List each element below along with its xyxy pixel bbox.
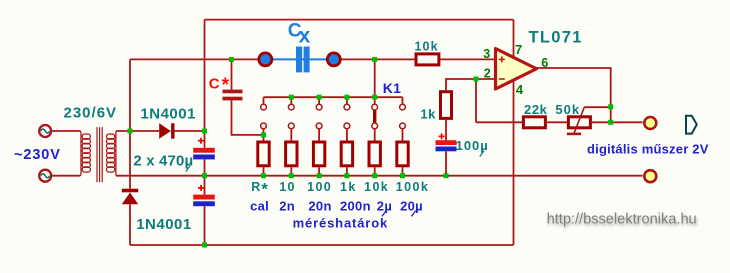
wire: transformer secondary top to D1 anode xyxy=(116,130,159,132)
capacitor C* plates xyxy=(223,90,243,101)
svg-text:2n: 2n xyxy=(279,198,295,213)
svg-text:3: 3 xyxy=(483,47,490,61)
svg-text:200n: 200n xyxy=(340,198,371,213)
wire: pin 4 drop to -V rail xyxy=(513,81,515,245)
label row: range values (blue) xyxy=(250,198,423,213)
svg-text:20n: 20n xyxy=(308,198,331,213)
micro tail of 100u xyxy=(480,151,484,157)
wire: wiper to output node xyxy=(584,106,611,108)
svg-text:*: * xyxy=(261,181,268,199)
switch K1 bottom contact leads to resistors xyxy=(264,129,403,141)
junction: ground rail 1k xyxy=(344,173,349,178)
resistor 10 (range) xyxy=(286,142,297,166)
junction: K1 feed tap on Cx row xyxy=(372,57,377,62)
svg-text:*: * xyxy=(222,75,230,96)
svg-text:10k: 10k xyxy=(364,180,389,194)
svg-text:20µ: 20µ xyxy=(400,198,423,213)
svg-text:1N4001: 1N4001 xyxy=(140,106,196,123)
wire: pin 7 supply drop xyxy=(513,20,515,57)
diode D2 1N4001 (vertical, cathode up) xyxy=(122,189,138,205)
wire: AC source bottom lead xyxy=(52,175,80,177)
AC source G1 sine symbol xyxy=(41,129,50,133)
svg-text:50k: 50k xyxy=(555,102,580,117)
transformer T1 primary winding envelope xyxy=(80,131,81,176)
capacitor C1 bottom lead xyxy=(204,159,206,175)
svg-text:2 x 470µ: 2 x 470µ xyxy=(133,152,193,169)
switch K1 top contacts xyxy=(261,104,406,110)
svg-text:x: x xyxy=(299,25,311,48)
svg-text:digitális műszer 2V: digitális műszer 2V xyxy=(587,141,709,156)
Cx capacitor plates xyxy=(296,47,310,73)
wire: 50k right to output terminal xyxy=(590,121,642,123)
resistor 1k (range) xyxy=(341,142,352,166)
Cx test terminal left xyxy=(259,53,272,66)
svg-text:K1: K1 xyxy=(383,80,402,96)
junction: ground rail 100u cap xyxy=(444,173,449,178)
svg-text:~230V: ~230V xyxy=(14,147,61,163)
capacitor C3 100u plates xyxy=(436,140,457,145)
resistor 10k (range) xyxy=(369,142,380,166)
capacitor C2 bottom lead xyxy=(204,206,206,245)
wire: Cx row from right terminal to 10k xyxy=(339,58,415,60)
transformer T1 primary winding loops xyxy=(82,134,90,172)
svg-text:R: R xyxy=(251,180,261,194)
AC source G2 sine symbol xyxy=(41,174,50,178)
svg-text:22k: 22k xyxy=(524,102,548,117)
capacitor C3 bottom lead xyxy=(445,151,447,175)
transformer T1 secondary winding envelope xyxy=(116,131,117,176)
transformer T1 secondary winding loops xyxy=(107,134,115,172)
junction: K1 bus col2 xyxy=(289,95,294,100)
junction: D1 cathode at +V rail xyxy=(202,129,207,134)
junction: feedback tap on pin 2 wire xyxy=(474,77,479,82)
svg-text:2: 2 xyxy=(484,67,491,81)
wire: op-amp output pin 6 xyxy=(536,68,611,107)
svg-text:4: 4 xyxy=(516,82,524,97)
op-amp U1 plus input marker xyxy=(499,56,505,62)
junction: output row xyxy=(608,120,613,125)
svg-text:100: 100 xyxy=(307,180,332,194)
label row: range resistor values (teal) xyxy=(251,180,429,198)
resistor R1 10k (horizontal) xyxy=(416,54,439,65)
Cx test terminal right xyxy=(327,53,340,66)
capacitor C2 plus sign xyxy=(198,185,204,191)
svg-text:2µ: 2µ xyxy=(377,198,392,213)
potentiometer RV1 trimmer shaft xyxy=(574,107,584,132)
wire: D2 anode down to -V rail xyxy=(129,204,131,245)
junction: K1 bus col5 feed xyxy=(372,95,377,100)
switch K1 feed drop from Cx row xyxy=(374,59,376,97)
capacitor C3 100u plus sign xyxy=(439,133,445,139)
junction: C* to R* top node xyxy=(261,132,266,137)
output terminal lower xyxy=(644,170,656,182)
svg-text:6: 6 xyxy=(541,56,548,70)
wire: D1 cathode to +V rail node xyxy=(175,130,205,132)
wire: AC feed vertical x=130 upper (corner to secondary top node) xyxy=(129,59,131,131)
svg-text:http://bsselektronika.hu: http://bsselektronika.hu xyxy=(547,212,697,228)
junction: ground rail 100 xyxy=(317,173,322,178)
svg-text:méréshatárok: méréshatárok xyxy=(293,215,388,230)
junction: ground rail 10k xyxy=(372,173,377,178)
svg-text:C: C xyxy=(209,75,220,92)
svg-text:1N4001: 1N4001 xyxy=(136,216,192,233)
junction: wiper to output xyxy=(608,104,613,109)
op-amp U1 TL071 triangle xyxy=(496,49,537,90)
svg-text:7: 7 xyxy=(515,42,522,57)
junction: K1 bus col3 xyxy=(317,95,322,100)
wire: Cx blue link between test terminals xyxy=(265,58,334,60)
junction: ground rail 10 xyxy=(289,173,294,178)
wire: secondary top node down to D2 cathode xyxy=(129,131,131,189)
wire: +V drop from top rail to D1 cathode node xyxy=(204,20,206,131)
op-amp U1 minus input marker xyxy=(499,78,505,80)
transformer T1 core xyxy=(97,127,102,182)
svg-text:1k: 1k xyxy=(340,180,357,194)
junction: C* tap on Cx row xyxy=(229,57,234,62)
wire: +V top rail xyxy=(205,19,514,21)
svg-text:10: 10 xyxy=(279,180,296,194)
resistor 100 (range) xyxy=(313,142,324,166)
output terminal upper xyxy=(644,117,656,129)
switch K1 bus xyxy=(264,96,403,98)
wire: 10k to op-amp pin 3 xyxy=(440,58,496,60)
resistor R* (range, vertical) xyxy=(258,142,269,166)
capacitor C2 plates xyxy=(193,195,215,200)
svg-text:10k: 10k xyxy=(415,40,439,54)
svg-text:1k: 1k xyxy=(420,107,436,122)
switch K1 bus drops to top contacts xyxy=(264,97,403,104)
micro tail of 2u xyxy=(382,211,386,217)
diode D1 1N4001 (horizontal) xyxy=(159,123,174,138)
capacitor C2 470u lower electrolytic: top lead xyxy=(204,176,206,195)
connector arrow icon xyxy=(686,116,697,134)
svg-text:TL071: TL071 xyxy=(529,28,583,46)
resistor 100k (range) xyxy=(397,142,408,166)
wire: -V bottom rail xyxy=(130,244,514,246)
AC source G1 upper circle xyxy=(39,125,51,137)
wire: feedback row to 22k xyxy=(476,121,523,123)
wire: Cx measurement row left segment xyxy=(130,58,260,60)
capacitor C1 plates xyxy=(193,148,215,153)
resistor R2 1k bottom lead xyxy=(445,118,447,140)
micro tail of 470u xyxy=(186,166,190,172)
resistor R2 1k body xyxy=(441,92,452,119)
switch K1 closed contact bar (position 5) xyxy=(373,110,376,122)
wire: 22k to 50k xyxy=(545,121,568,123)
junction: caps midpoint on ground rail xyxy=(202,173,207,178)
switch K1 bottom contacts xyxy=(261,123,406,129)
junction: ground rail R* xyxy=(261,173,266,178)
potentiometer RV1 50k body xyxy=(568,117,590,128)
svg-text:cal: cal xyxy=(250,198,269,213)
range resistor bottom leads xyxy=(264,167,403,175)
wire: output node vertical link xyxy=(610,107,612,123)
resistor R2 1k (vertical): top lead to pin 2 net xyxy=(446,79,496,90)
potentiometer RV1 screwdriver slot bar xyxy=(567,133,581,136)
AC source G2 lower circle xyxy=(39,170,51,182)
junction: ground rail 100k xyxy=(400,173,405,178)
capacitor C1 plus sign xyxy=(198,138,204,144)
junction: C2 bottom at -V rail xyxy=(202,243,207,248)
wire: ground rail (secondary bottom, cap midpoint, resistor bus, to lower terminal) xyxy=(116,175,643,177)
feedback drop from pin 2 node xyxy=(475,79,477,122)
capacitor C1 470u upper electrolytic: lead from D1 node xyxy=(204,131,206,148)
svg-text:100k: 100k xyxy=(396,180,429,194)
junction: K1 bus col4 xyxy=(344,95,349,100)
resistor R3 22k body xyxy=(523,117,545,128)
junction: secondary top node xyxy=(128,129,133,134)
capacitor C* bottom lead to R* node xyxy=(232,100,264,134)
micro tail of 20u xyxy=(411,211,415,217)
svg-text:230/6V: 230/6V xyxy=(64,105,118,122)
capacitor C* top lead from Cx row xyxy=(231,59,233,89)
wire: AC source top lead xyxy=(52,130,80,132)
